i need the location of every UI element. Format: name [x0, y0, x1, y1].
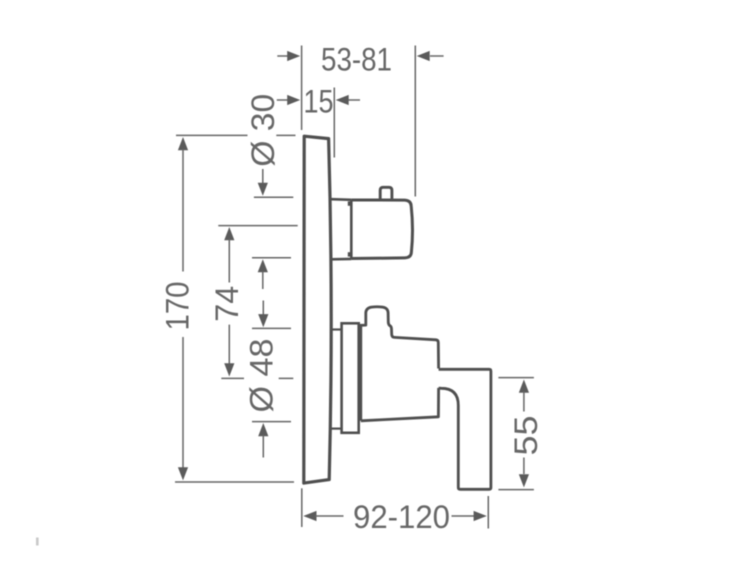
dimension 55 line and arrows: [519, 380, 529, 488]
dimension D48 bottom arrow: [258, 423, 268, 458]
dimension D30 top tick: [254, 196, 293, 198]
dimension 170 extension line top: [176, 134, 296, 136]
faint stray mark lower left: [36, 538, 39, 546]
dimension text 74 (rotated): [209, 286, 245, 322]
dimension 74 bottom tick (broken by D48 text): [221, 377, 293, 379]
dimension 92-120 right arrow: [452, 511, 487, 521]
sleeve-to-plate connector top: [331, 328, 341, 330]
svg-text:53-81: 53-81: [321, 41, 392, 77]
dimension 53-81 left arrow: [277, 51, 300, 61]
dimension 74 line and arrows: [224, 227, 234, 377]
dimension 55 bottom tick: [498, 489, 534, 491]
dimension 15 left arrow: [277, 95, 300, 105]
sleeve-to-plate connector bottom: [331, 428, 341, 430]
dimension 53-81 right arrow: [417, 51, 444, 61]
lever handle: [439, 369, 491, 489]
dimension D48 top arrow: [258, 301, 268, 328]
dimension text 15: [304, 84, 334, 120]
svg-text:15: 15: [304, 84, 334, 120]
thermostat handle body: [351, 200, 412, 259]
wall plate (escutcheon), side view: [304, 136, 331, 483]
dimension text 55 (rotated): [508, 416, 544, 456]
dimension 92-120 extension line right: [487, 496, 489, 529]
dimension text 53-81: [321, 41, 392, 77]
dimension D48 top tick: [252, 327, 291, 329]
svg-text:Ø 48: Ø 48: [244, 339, 280, 413]
dimension D30 bottom tick: [252, 257, 291, 259]
svg-text:92-120: 92-120: [353, 499, 450, 535]
svg-text:170: 170: [159, 282, 195, 331]
dimension 92-120 left arrow: [303, 511, 343, 521]
svg-text:Ø 30: Ø 30: [245, 94, 281, 167]
dimension 55 top tick: [498, 377, 534, 379]
dimension text 92-120: [353, 499, 450, 535]
lower valve sleeve ring: [342, 323, 359, 433]
dimension 15 right arrow: [336, 95, 360, 105]
dimension text 170 (rotated): [159, 282, 195, 331]
dimension 92-120 extension line left: [301, 488, 303, 527]
svg-text:55: 55: [508, 416, 544, 456]
dimension 74 top tick: [218, 225, 297, 227]
dimension D30 top arrow: [258, 169, 268, 196]
dimension 53-81 extension line left: [301, 46, 303, 131]
dimension 15 extension line right: [333, 88, 335, 158]
dimension 170 extension line bottom: [175, 481, 294, 483]
dimension 170 line and arrows: [178, 137, 188, 480]
svg-text:74: 74: [209, 286, 245, 322]
dimension text D48 (rotated): [244, 339, 280, 413]
collar corner blocks: [348, 201, 352, 256]
dimension D48 bottom tick: [252, 421, 291, 423]
dimension D30 bottom arrow: [258, 259, 268, 289]
dimension 53-81 extension line right: [414, 46, 416, 197]
valve body with dome button: [361, 307, 439, 421]
dimension D30 text (rotated): [245, 94, 281, 167]
thermostat handle collar: [331, 199, 351, 259]
thermostat handle grip notch: [380, 187, 392, 199]
